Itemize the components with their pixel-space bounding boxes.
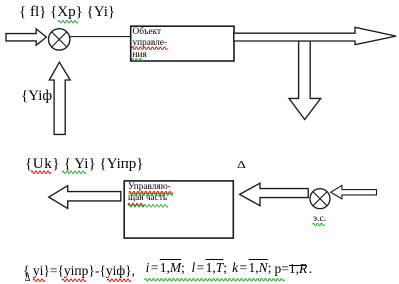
arrow A7: hollow left input arrow into comparator U2 — [331, 185, 377, 199]
arrow A3: hollow down output arrow — [289, 41, 321, 120]
arrow A4: hollow up feedback arrow into U1 — [49, 62, 70, 134]
squiggle green under Управляю- — [129, 193, 173, 196]
arrow A2: hollow right output arrow from object box — [234, 27, 396, 44]
node label { fl} {Xp} {Yi} top input signals — [19, 5, 115, 20]
node label {Yiф} feedback signal — [21, 89, 59, 104]
summing junction U1 (circle with X) — [49, 29, 70, 50]
squiggle red under управле- — [131, 47, 167, 50]
squiggle red under Управляю- — [129, 191, 173, 194]
wire: summing junction U1 to object box — [70, 36, 131, 38]
arrow A5: hollow left control output arrow from B2 — [49, 186, 121, 209]
node label small delta above comparator — [237, 160, 246, 171]
block B1: object-under-control box (Объект управления) — [131, 26, 234, 61]
node label {Uk} { Yi} {Yiпр} control signals — [25, 157, 144, 172]
squiggle red under щая — [128, 203, 144, 206]
formula: delta yi = yiпр - yiф with index ranges — [23, 264, 312, 278]
comparator U2 (circle with X, error signal) — [310, 189, 330, 209]
arrow A6: hollow left arrow from comparator U2 to B2 — [240, 183, 309, 206]
squiggle red under yiф}, — [107, 279, 131, 282]
squiggle green under ния — [131, 59, 143, 62]
block B1 text: Объект управле- ния — [133, 27, 168, 62]
squiggle green under index list — [145, 279, 285, 282]
squiggle green under э.с. — [313, 223, 325, 226]
squiggle green under щая часть — [128, 205, 168, 208]
arrow A1: hollow right input arrow into summing junction U1 — [6, 29, 46, 45]
squiggle green under { Yi — [62, 171, 86, 174]
formula leading delta under brace — [25, 270, 30, 283]
squiggle red under yi — [33, 279, 45, 282]
block B2 text: Управляю- щая часть — [128, 182, 171, 205]
block B2: controlling part box (Управляющая часть) — [124, 181, 233, 238]
squiggle red under Uk — [31, 171, 51, 174]
node label э.с. (error signal) at comparator U2 — [313, 215, 326, 225]
squiggle red under yiпр — [62, 279, 86, 282]
squiggle green under Xp — [58, 21, 78, 24]
